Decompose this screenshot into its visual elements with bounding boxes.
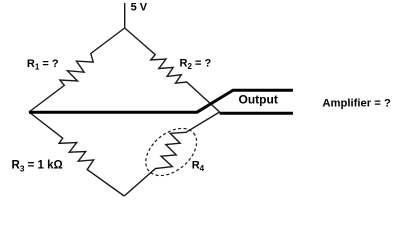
svg-text:Amplifier = ?: Amplifier = ? bbox=[322, 97, 391, 109]
resistor R2 bbox=[125, 28, 220, 112]
wire output top (from left node) bbox=[29, 90, 293, 112]
wire output bottom (from right node) bbox=[220, 112, 293, 115]
wire supply top bbox=[124, 3, 126, 28]
svg-text:R3 = 1 kΩ: R3 = 1 kΩ bbox=[12, 160, 63, 174]
highlight ellipse around R4 bbox=[137, 119, 206, 185]
svg-text:R1 = ?: R1 = ? bbox=[27, 58, 59, 72]
resistor R4 bbox=[124, 112, 219, 196]
resistor R3 bbox=[29, 112, 124, 196]
svg-text:5 V: 5 V bbox=[131, 2, 148, 14]
svg-text:Output: Output bbox=[239, 92, 278, 106]
resistor R1 bbox=[29, 28, 125, 112]
svg-text:R2 = ?: R2 = ? bbox=[180, 58, 212, 72]
